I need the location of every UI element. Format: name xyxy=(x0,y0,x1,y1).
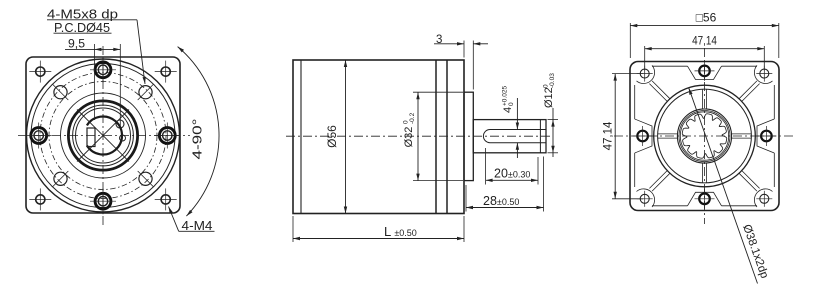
svg-text:Ø12: Ø12 xyxy=(543,87,555,108)
svg-text:9,5: 9,5 xyxy=(68,37,85,51)
svg-text:47,14: 47,14 xyxy=(603,121,615,150)
svg-text:47,14: 47,14 xyxy=(692,36,717,48)
svg-text:0: 0 xyxy=(508,102,515,106)
svg-text:4: 4 xyxy=(502,107,514,113)
svg-text:-0.2: -0.2 xyxy=(409,112,416,124)
svg-text:Ø56: Ø56 xyxy=(325,125,339,148)
svg-text:20±0.30: 20±0.30 xyxy=(494,167,530,181)
svg-text:-0.03: -0.03 xyxy=(549,73,556,88)
svg-text:Ø32: Ø32 xyxy=(403,127,415,148)
svg-text:4-M4: 4-M4 xyxy=(182,218,213,233)
svg-text:28±0.50: 28±0.50 xyxy=(483,194,519,208)
svg-text:4-90°: 4-90° xyxy=(191,119,205,160)
svg-text:□56: □56 xyxy=(696,11,717,25)
